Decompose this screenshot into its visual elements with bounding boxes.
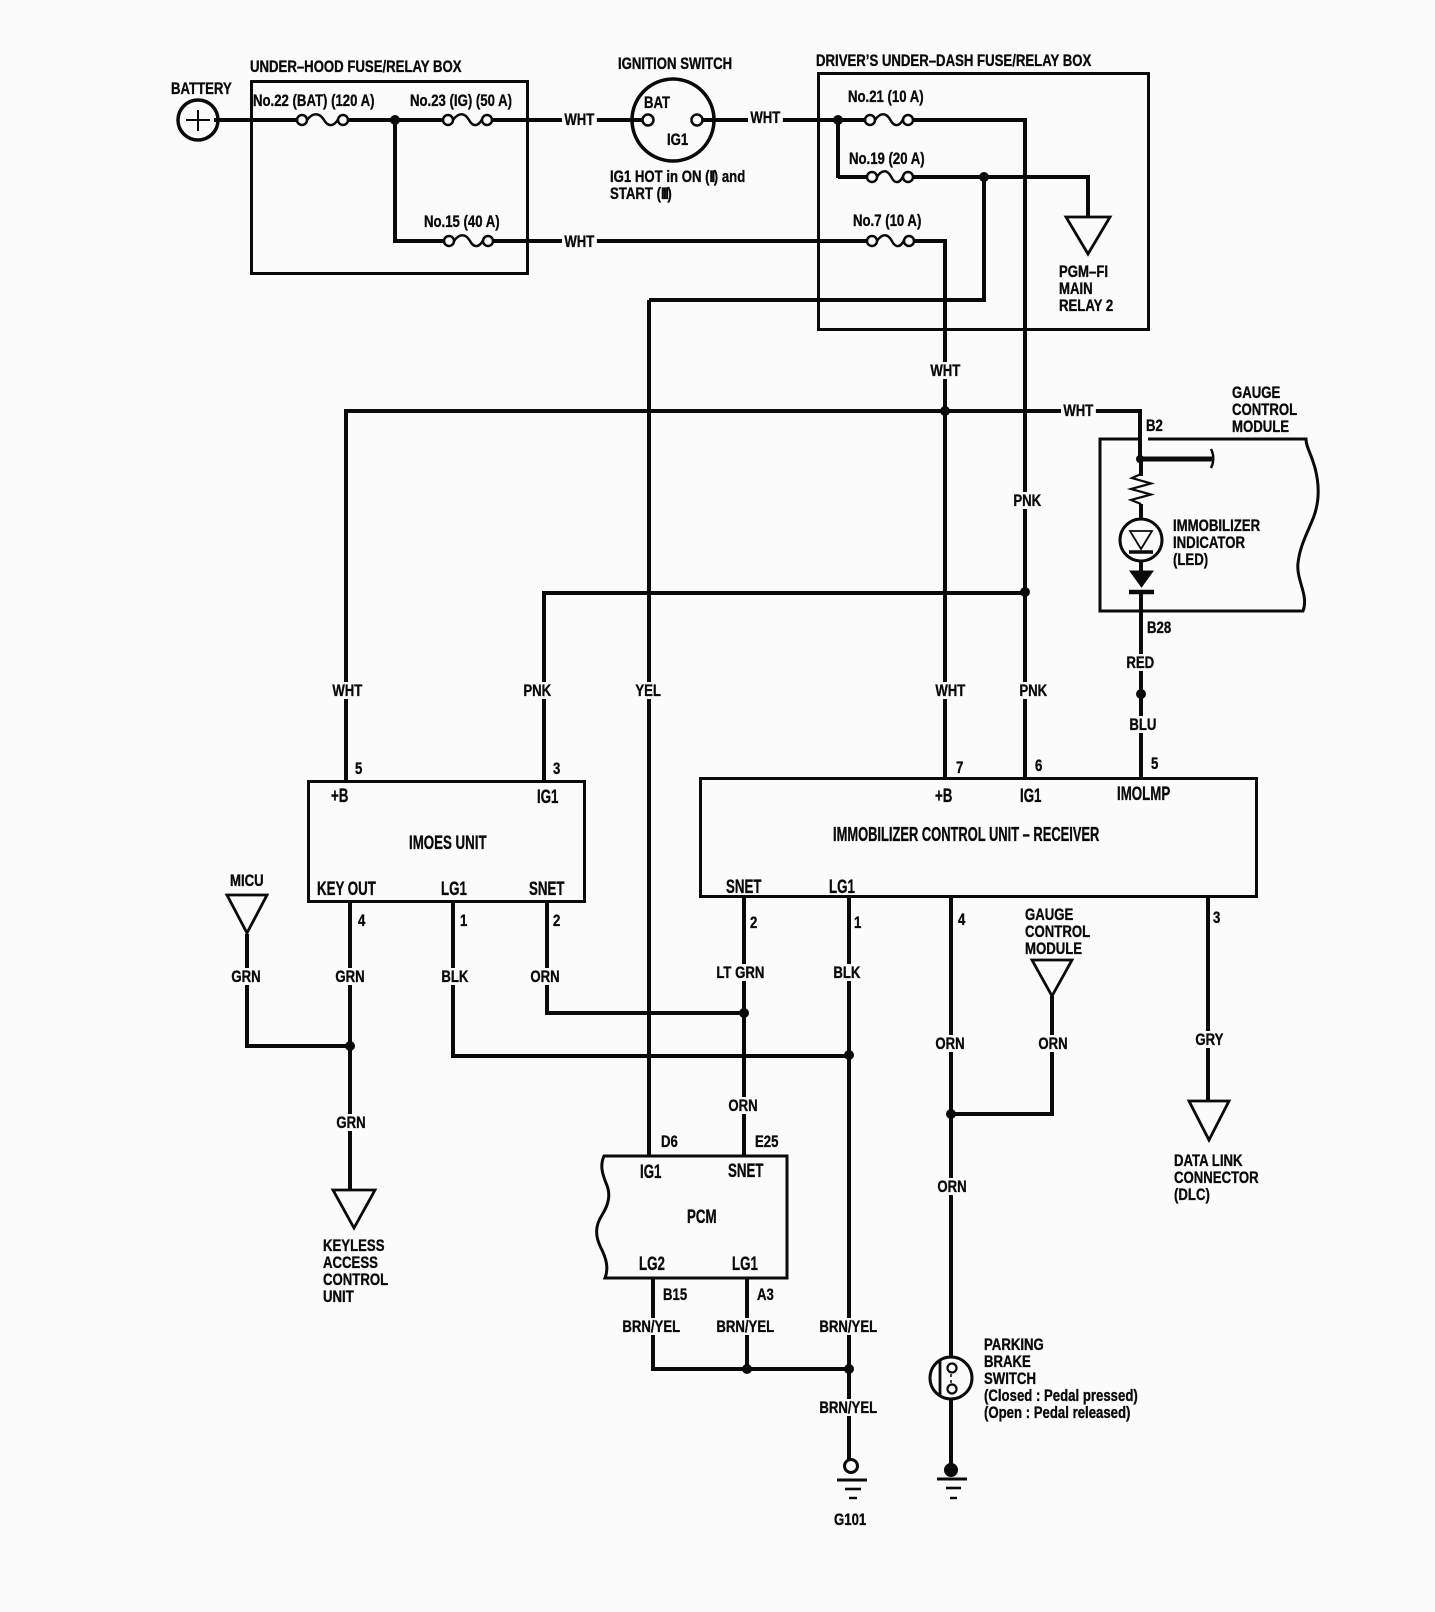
junction No.19 output [979,172,989,182]
wire junction to fuse No.21 [838,118,865,122]
wire to fuse No.19 [838,175,867,179]
wire WHT vertical to IMOES +B pin 5 [344,411,348,780]
immobilizer indicator LED [1120,519,1162,561]
label GAUGE CONTROL MODULE (upper) [1232,384,1297,435]
ground G101 [837,1460,867,1499]
IMOES unit box [307,780,586,903]
pin 1 IMOES LG1 [460,912,467,929]
wire LED to diode [1139,560,1143,572]
fuse No.22 [297,114,348,125]
label GRY [1193,1031,1226,1048]
label LG1 IMOES [441,881,467,898]
label B2 [1146,417,1163,434]
label BRN/YEL (to ground) [817,1399,879,1416]
wire to fuse No.15 [395,239,444,243]
wire B2 down into gauge control module [1138,411,1142,459]
label fuse No.7 [853,212,921,229]
wire BLK horizontal to receiver LG1 line [453,1054,851,1058]
label PCM [687,1209,717,1226]
label WHT (No.15 feed) [562,233,597,250]
junction ORN gauge / pin 4 [946,1109,956,1119]
label SNET IMOES [529,881,564,898]
pin 4 IMOES KEY OUT [358,912,365,929]
gauge internal connection bar [1141,457,1212,462]
label GRN (MICU) [229,968,263,985]
connector triangle MICU [227,895,267,933]
label LT GRN [714,964,767,981]
wire fuse No.15 to driver's box [493,239,867,243]
wire diode to box edge and B28 [1139,593,1143,656]
label fuse No.19 [849,150,925,167]
label G101 [834,1511,866,1528]
wire resistor to LED [1139,504,1143,520]
wire junction down to fuse No.15 [393,120,397,243]
junction PNK branch [1020,587,1030,597]
label WHT (to receiver +B) [933,682,968,699]
junction BRN/YEL at receiver line [844,1364,854,1374]
label IMMOBILIZER INDICATOR LED [1173,517,1260,568]
junction under-hood fuses [390,115,400,125]
label BRN/YEL (LG2) [620,1318,682,1335]
pin 1 receiver LG1 [854,914,861,931]
pin 5 IMOES +B [355,760,362,777]
label GRN (KEY OUT) [333,968,367,985]
label IG1 PCM [640,1164,661,1181]
wire receiver pin 4 ORN down to parking brake switch [949,898,953,1358]
ground (parking brake switch) [937,1463,967,1498]
wire junction down to fuse No.19 [836,118,840,178]
label fuse No.23 [410,92,512,109]
wire resistor top lead [1139,459,1143,476]
junction BLK lines [844,1050,854,1060]
label IMOLMP receiver [1117,786,1170,803]
wire YEL vertical to PCM IG1 pin D6 [647,300,651,1156]
wire junction No.19 down [982,177,986,302]
wire BRN/YEL common [653,1367,851,1371]
label PGM-FI MAIN RELAY 2 [1059,263,1113,314]
wire WHT vertical No.7 to receiver +B pin 7 [943,239,947,777]
label SNET receiver [726,879,761,896]
fuse No.19 [867,171,913,182]
wire PCM LG1 down [745,1278,749,1371]
label RED [1124,654,1156,671]
label YEL [633,682,663,699]
label PNK (to receiver IG1) [1017,682,1049,699]
label ORN (receiver SNET to PCM) [726,1097,760,1114]
label WHT (battery feed) [562,111,597,128]
title UNDER-HOOD FUSE/RELAY BOX [250,58,462,75]
fuse No.15 [444,235,493,246]
label B28 [1147,619,1171,636]
wire down to PGM-FI relay triangle [1086,175,1090,217]
title IGNITION SWITCH [618,55,732,72]
label ORN (to parking brake) [935,1178,969,1195]
connector triangle PGM-FI MAIN RELAY 2 [1066,217,1110,254]
PCM box (torn left edge) [597,1156,787,1278]
label WHT (to IMOES +B) [330,682,365,699]
wire gauge module triangle down [1050,996,1054,1114]
junction RED/BLU [1136,689,1146,699]
wire WHT to ignition switch BAT terminal [600,118,643,122]
ignition switch [632,79,714,161]
label WHT (bus) [1061,402,1096,419]
label fuse No.15 [424,213,500,230]
label ORN (IMOES SNET) [528,968,562,985]
connector triangle KEYLESS ACCESS CONTROL UNIT [333,1190,375,1228]
wire battery to fuse No.22 [214,118,297,122]
label IMOES UNIT [409,835,487,852]
immobilizer control unit - receiver box [699,777,1258,898]
pin 4 receiver [958,911,965,928]
label +B IMOES [331,788,348,805]
label ORN (pin 4) [933,1035,967,1052]
wire KEY OUT GRN vertical [348,903,352,1190]
gauge control module torn box [1100,439,1318,611]
pin 3 receiver [1213,909,1220,926]
wire receiver SNET LT GRN down to PCM SNET pin E25 [742,898,746,1156]
resistor (LED dropping resistor) [1131,474,1151,504]
title DRIVER'S UNDER-DASH FUSE/RELAY BOX [816,52,1091,69]
junction MICU / KEY OUT [345,1041,355,1051]
fuse No.23 [443,114,492,125]
note IG1 HOT [610,168,745,202]
wire fuse No.23 to WHT label [492,118,620,122]
wire MICU to KEY OUT junction [247,1044,352,1048]
wire IMOES LG1 BLK vertical [451,903,455,1058]
driver's under-dash fuse/relay box [817,72,1150,331]
wire YEL horizontal [649,298,986,302]
wire IMOES SNET ORN vertical [545,903,549,1015]
label PNK (No.21 branch) [1011,492,1043,509]
junction gauge module internal [1136,455,1144,463]
wire fuse No.19 to PGM-FI relay corner [913,175,1090,179]
wire gauge module ORN joining pin 4 line [951,1112,1054,1116]
label IG1 terminal [667,131,688,148]
label fuse No.21 [848,88,924,105]
title IMMOBILIZER CONTROL UNIT - RECEIVER [833,827,1099,844]
label LG2 PCM [639,1256,665,1273]
pin 5 receiver IMOLMP [1151,755,1158,772]
pin 3 IMOES IG1 [553,760,560,777]
label IG1 IMOES [537,789,558,806]
parking brake switch [930,1357,972,1399]
pin 2 IMOES SNET [553,912,560,929]
label +B receiver [935,788,952,805]
junction WHT bus / No.7 line [940,406,950,416]
diode (below LED) [1129,571,1154,592]
pin A3 [757,1286,774,1303]
pin 6 receiver IG1 [1035,757,1042,774]
label LG1 PCM [732,1256,758,1273]
connector triangle GAUGE CONTROL MODULE (lower) [1032,960,1072,996]
fuse No.7 [867,235,914,246]
label IG1 receiver [1020,788,1041,805]
connector triangle DATA LINK CONNECTOR DLC [1189,1101,1229,1140]
wire fuse No.7 to corner [914,239,947,243]
label ORN (gauge) [1036,1035,1070,1052]
wire RED to junction [1139,670,1143,720]
pin B15 [663,1286,687,1303]
wire PNK horizontal [542,591,1025,595]
label BLU [1127,716,1159,733]
label BRN/YEL (receiver) [817,1318,879,1335]
wire WHT horizontal bus [344,409,1142,413]
battery [178,100,218,140]
label fuse No.22 [253,92,375,109]
pin E25 [755,1133,778,1150]
junction BRN/YEL at LG1 [742,1364,752,1374]
label BATTERY [171,80,232,97]
pin 2 receiver SNET [750,914,757,931]
label GAUGE CONTROL MODULE (lower) [1025,906,1090,957]
wire PCM LG2 down [651,1278,655,1371]
wire parking brake switch to ground [949,1398,953,1466]
label WHT (ignition out) [748,109,783,126]
label PARKING BRAKE SWITCH [984,1336,1138,1421]
under-hood fuse/relay box [250,80,529,275]
wire fuse No.21 to corner [913,118,1027,122]
wire ORN horizontal to LT GRN line [547,1011,746,1015]
wire BLU to receiver IMOLMP pin 5 [1139,730,1143,777]
fuse No.21 [865,114,913,125]
label BLK (receiver LG1) [831,964,863,981]
label WHT (No.7 branch) [928,362,963,379]
pin D6 [661,1133,678,1150]
label BAT terminal [644,94,670,111]
wire ignition IG1 terminal to driver's box [702,118,838,122]
junction No.21/No.19 branch [833,115,843,125]
label MICU [230,872,264,889]
wire PNK vertical to IMOES IG1 pin 3 [542,593,546,780]
label KEYLESS ACCESS CONTROL UNIT [323,1237,388,1305]
label GRN (lower) [334,1114,368,1131]
label BLK (IMOES LG1) [439,968,471,985]
wire fuse No.22 to junction to fuse No.23 [348,118,443,122]
label PNK (to IMOES IG1) [521,682,553,699]
label SNET PCM [728,1163,763,1180]
label DATA LINK CONNECTOR DLC [1174,1152,1259,1203]
pin 7 receiver +B [956,759,963,776]
wire receiver pin 3 GRY down to DLC [1206,898,1210,1101]
wire MICU vertical [245,934,249,1048]
label KEY OUT [317,881,376,898]
wire PNK vertical from fuse No.21 down to receiver IG1 pin 6 [1023,118,1027,777]
junction ORN / LT GRN [739,1008,749,1018]
label LG1 receiver [829,879,855,896]
label BRN/YEL (LG1) [714,1318,776,1335]
wire receiver LG1 BLK down to ground G101 [847,898,851,1464]
